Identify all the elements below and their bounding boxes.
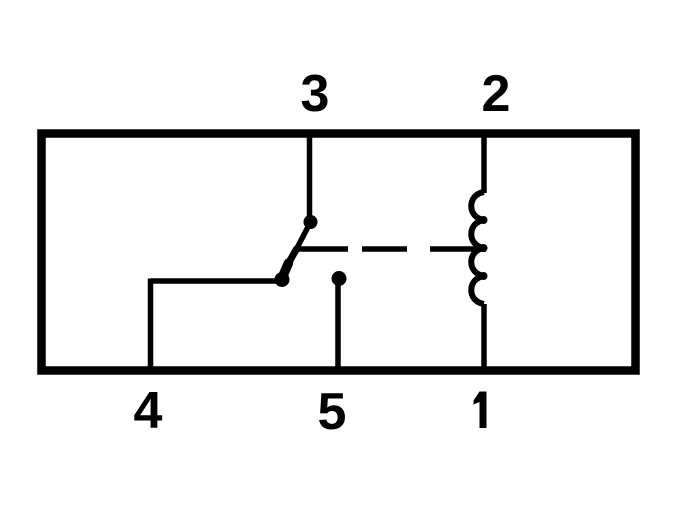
label pin 1 bbox=[474, 392, 487, 429]
svg-text:5: 5 bbox=[318, 383, 347, 441]
wire pin 2 lead bbox=[481, 135, 487, 193]
wire pin 1 lead bbox=[481, 304, 487, 368]
coil winding knot 2 bbox=[480, 244, 488, 252]
coil winding knot 3 bbox=[480, 272, 488, 280]
coil K1 winding bbox=[471, 192, 484, 304]
wire pin 4 horizontal run bbox=[151, 278, 283, 284]
switch armature (movable contact blade) bbox=[296, 222, 311, 250]
node NO contact (pin 5 dot) bbox=[332, 271, 347, 286]
svg-text:4: 4 bbox=[134, 382, 163, 440]
node common contact (pin 3 dot) bbox=[304, 215, 318, 229]
armature blade lower thick section bbox=[282, 263, 289, 278]
svg-text:3: 3 bbox=[301, 65, 330, 123]
mechanical link (dashed actuator line) bbox=[294, 246, 486, 252]
wire pin 3 lead bbox=[307, 135, 313, 219]
wire pin 4 lead bbox=[148, 279, 154, 369]
node NC contact (pin 4 dot) bbox=[275, 272, 290, 287]
wire pin 5 lead bbox=[335, 278, 341, 368]
relay enclosure (outline) bbox=[42, 134, 636, 371]
svg-text:2: 2 bbox=[482, 65, 511, 123]
armature blade middle section bbox=[288, 249, 297, 264]
coil winding knot 1 bbox=[480, 216, 488, 224]
